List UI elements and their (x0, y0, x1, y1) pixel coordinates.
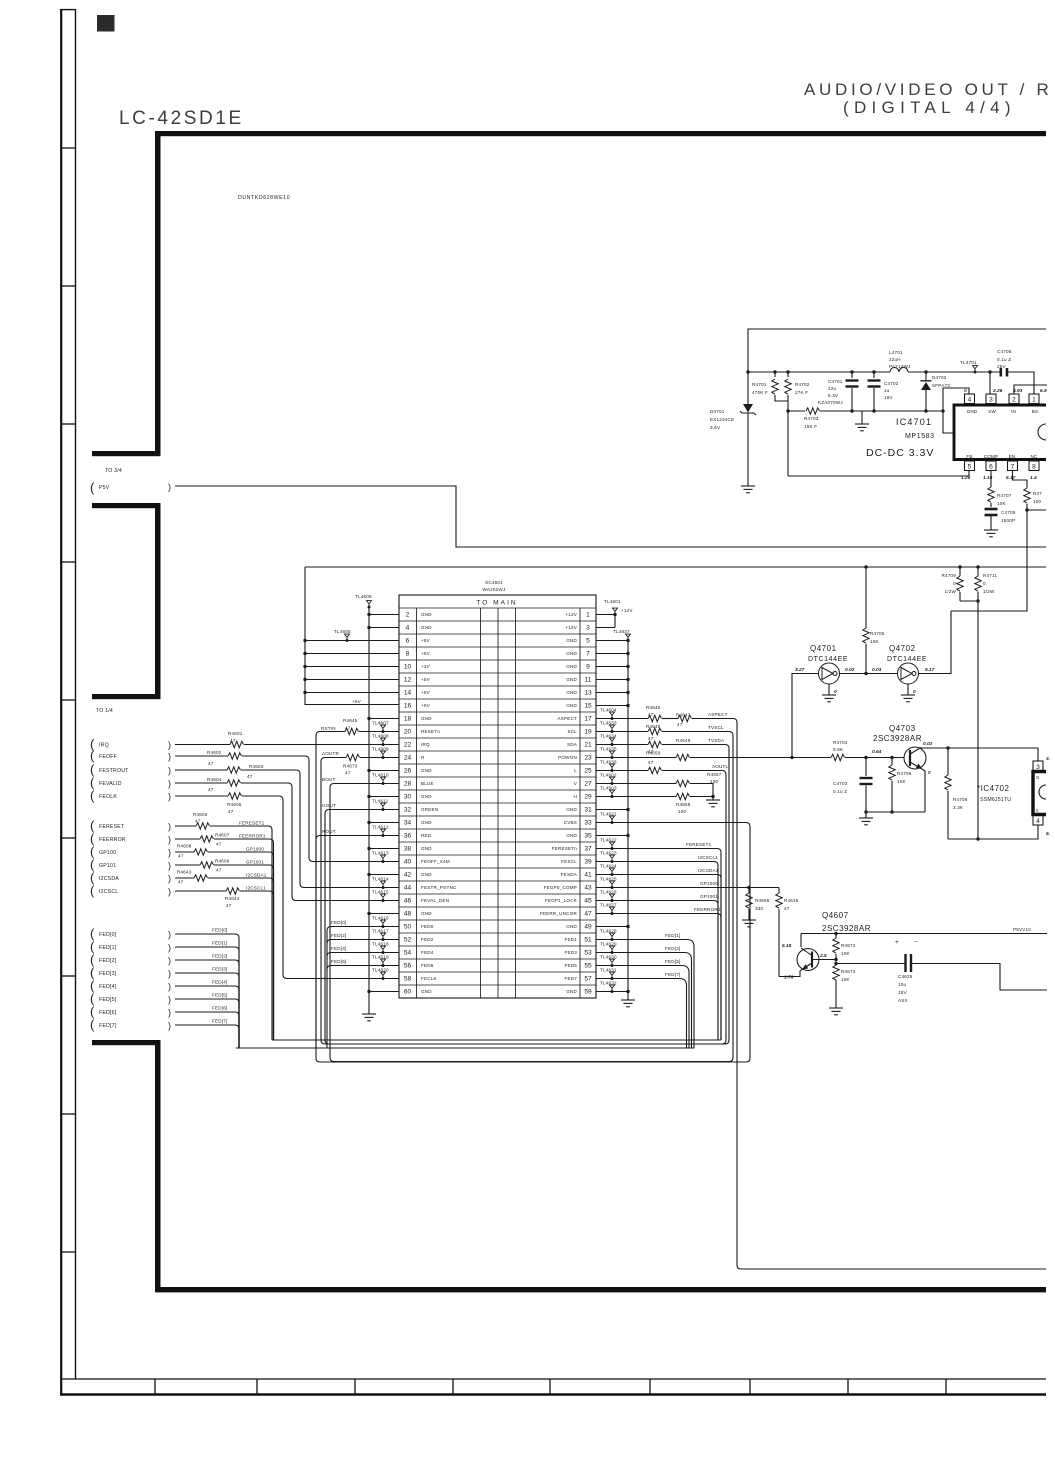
svg-text:1: 1 (586, 611, 590, 618)
wire +12V pins 1,3 (596, 615, 615, 628)
pin 3 SW (986, 394, 996, 404)
capacitor C4705 (990, 503, 992, 507)
wire IRQ to pin 22 (175, 744, 230, 746)
svg-text:R4643: R4643 (177, 870, 192, 875)
svg-text:9: 9 (586, 663, 590, 670)
svg-text:): ) (168, 995, 171, 1005)
wire I2CSCL net I2CSCL1 (175, 890, 226, 892)
test point TL4610 (381, 777, 386, 785)
svg-text:TL4602: TL4602 (600, 773, 617, 778)
svg-text:C4705: C4705 (1001, 510, 1016, 515)
svg-text:18: 18 (404, 715, 412, 722)
test point TL4631 (610, 972, 615, 980)
test point TL4627 (610, 907, 615, 915)
svg-text:R4607: R4607 (215, 833, 230, 838)
resistor R4673 (346, 754, 360, 760)
svg-text:I2CSDA1: I2CSDA1 (246, 873, 267, 878)
resistor R4648 (648, 728, 662, 734)
ground R4656 (742, 920, 756, 927)
svg-text:ASPECT: ASPECT (708, 712, 728, 717)
svg-text:FED1: FED1 (564, 937, 577, 942)
svg-text:23: 23 (584, 754, 592, 761)
svg-text:GND: GND (566, 690, 577, 695)
svg-text:7: 7 (586, 650, 590, 657)
resistor R4608 (194, 849, 208, 855)
svg-text:(: ( (90, 1017, 95, 1032)
svg-text:FED7: FED7 (564, 976, 577, 981)
svg-text:I2CSDA: I2CSDA (99, 876, 119, 882)
svg-text:1.4: 1.4 (1030, 475, 1037, 481)
svg-text:2SC3928AR: 2SC3928AR (822, 924, 871, 933)
resistor R4602 (228, 753, 242, 759)
svg-text:C4625: C4625 (898, 974, 913, 979)
left ruler ticks (60, 148, 76, 1252)
svg-text:R4647: R4647 (676, 713, 691, 718)
test point TL4628 (610, 933, 615, 941)
resistor R4647 (678, 715, 692, 721)
wire base Q4607 (812, 959, 836, 961)
svg-text:WA202WJ: WA202WJ (483, 587, 506, 592)
resistor R4616 (778, 888, 780, 894)
resistor R4645 (345, 728, 359, 734)
svg-text:IRQ: IRQ (99, 743, 109, 749)
svg-text:100: 100 (1033, 499, 1042, 504)
svg-text:): ) (168, 887, 171, 897)
wire GND pin 26 (369, 770, 399, 772)
test point TL4608 (381, 738, 386, 746)
svg-text:TVSDA: TVSDA (708, 738, 725, 743)
svg-text:R4645: R4645 (343, 718, 358, 723)
wire GND pin 30 (369, 796, 399, 798)
svg-text:R4605: R4605 (227, 802, 242, 807)
left ruler top cap (60, 9, 76, 11)
wire EN down to Q4702 (951, 510, 1027, 611)
svg-text:31: 31 (584, 806, 592, 813)
svg-text:43: 43 (584, 884, 592, 891)
test point TL4607 (381, 725, 386, 733)
svg-text:+5V: +5V (421, 690, 431, 695)
svg-text:SSM6J51TU: SSM6J51TU (980, 797, 1011, 803)
ground right bus (621, 1000, 635, 1007)
resistor R4704 (831, 754, 845, 760)
wire FB divider node down (787, 395, 789, 476)
wire ASPECT pin 17 off-page (596, 718, 648, 720)
svg-text:24: 24 (404, 754, 412, 761)
wire FEVALID to pin 46 (175, 782, 227, 784)
wire GND pin 11 (596, 679, 628, 681)
resistor R4646 (648, 715, 662, 721)
svg-text:R4606: R4606 (193, 812, 208, 817)
svg-text:GP100: GP100 (99, 850, 116, 856)
wire GP101 net GP1001 (175, 864, 200, 866)
wire +5V pin 6 (305, 640, 399, 642)
svg-text:59: 59 (584, 988, 592, 995)
wire GND pin 59 (596, 991, 628, 993)
svg-text:TL4626: TL4626 (600, 890, 617, 895)
svg-text:R4705: R4705 (870, 631, 885, 636)
bottom ruler ticks (155, 1379, 946, 1394)
svg-text:GND: GND (421, 716, 432, 721)
svg-text:POWON: POWON (558, 755, 577, 760)
svg-text:TL4628: TL4628 (600, 929, 617, 934)
svg-text:GND: GND (566, 651, 577, 656)
svg-text:8: 8 (1032, 464, 1036, 471)
svg-text:58: 58 (404, 975, 412, 982)
svg-text:47: 47 (648, 712, 654, 717)
svg-text:2.5: 2.5 (819, 953, 827, 959)
wire emitter return (866, 811, 925, 813)
svg-text:0.1u Z: 0.1u Z (833, 789, 847, 794)
svg-text:I2CSCL: I2CSCL (99, 889, 118, 895)
svg-text:38: 38 (404, 845, 412, 852)
border left upper segment (155, 131, 161, 456)
wire GND pin 7 (596, 653, 628, 655)
svg-text:17: 17 (584, 715, 592, 722)
svg-text:22: 22 (404, 741, 412, 748)
svg-text:10K: 10K (897, 779, 907, 784)
svg-text:): ) (168, 969, 171, 979)
svg-text:GND: GND (421, 846, 432, 851)
svg-text:FEERROR1: FEERROR1 (694, 907, 721, 912)
test point TL4615 (381, 894, 386, 902)
svg-text:TL4608: TL4608 (372, 734, 389, 739)
svg-text:FERESET1: FERESET1 (239, 821, 265, 826)
resistor R4656 (748, 888, 750, 894)
resistor R4603 (227, 767, 241, 773)
svg-text:470K F: 470K F (752, 390, 768, 395)
svg-text:RED: RED (421, 833, 432, 838)
resistor R4644 (226, 888, 240, 894)
ground Q4701 (828, 684, 830, 695)
svg-text:): ) (168, 930, 171, 940)
resistor R4643 (194, 875, 208, 881)
svg-text:I2CSCL1: I2CSCL1 (698, 855, 718, 860)
test point TL4609 (381, 751, 386, 759)
wire GND pin4 routing (943, 388, 969, 433)
svg-text:32: 32 (404, 806, 412, 813)
wire GND pin 48 (369, 913, 399, 915)
wire RSTIN pin 20 (359, 731, 399, 733)
svg-text:2.26: 2.26 (992, 388, 1003, 394)
wire GND pin 35 (596, 835, 628, 837)
svg-text:12: 12 (404, 676, 412, 683)
svg-text:FERESET: FERESET (99, 824, 125, 830)
border notch bar 2 (92, 503, 161, 508)
wire IC4702 source node (948, 825, 1038, 839)
svg-text:47: 47 (648, 760, 654, 765)
svg-text:TL4623: TL4623 (600, 851, 617, 856)
svg-text:TL4609: TL4609 (372, 747, 389, 752)
svg-text:GP1001: GP1001 (246, 860, 264, 865)
svg-text:20: 20 (404, 728, 412, 735)
svg-text:TL4605: TL4605 (334, 629, 351, 634)
ground left bus (362, 1014, 376, 1021)
svg-text:51: 51 (584, 936, 592, 943)
svg-text:FERESET1: FERESET1 (686, 842, 712, 847)
svg-text:47: 47 (178, 854, 184, 859)
svg-text:R4673: R4673 (343, 764, 358, 769)
svg-text:GND: GND (421, 820, 432, 825)
svg-text:GND: GND (421, 625, 432, 630)
resistor R4672 (835, 934, 837, 939)
svg-text:(DIGITAL 4/4): (DIGITAL 4/4) (843, 98, 1016, 117)
svg-text:0: 0 (953, 581, 956, 586)
border top edge (155, 131, 1046, 136)
svg-text:FEERR_UNCOR: FEERR_UNCOR (540, 911, 578, 916)
svg-text:GND: GND (421, 612, 432, 617)
svg-text:GND: GND (566, 664, 577, 669)
svg-text:R4704: R4704 (833, 740, 848, 745)
wire FEOFF to pin 40 (175, 755, 228, 757)
test point TL4623 (610, 855, 615, 863)
capacitor C4703 (865, 758, 867, 777)
svg-text:FESTR_PSYNC: FESTR_PSYNC (421, 885, 457, 890)
svg-text:PA214WJ: PA214WJ (889, 364, 910, 369)
svg-text:4: 4 (968, 397, 972, 404)
svg-text:SFPA73: SFPA73 (932, 383, 950, 388)
svg-text:10K: 10K (997, 501, 1007, 506)
test point TL4618 (381, 946, 386, 954)
svg-text:GP1000: GP1000 (700, 881, 718, 886)
svg-text:(: ( (90, 883, 95, 898)
svg-text:FED[3]: FED[3] (665, 946, 681, 951)
svg-text:2: 2 (406, 611, 410, 618)
svg-text:34: 34 (404, 819, 412, 826)
svg-text:FESDA: FESDA (561, 872, 578, 877)
svg-text:16V: 16V (884, 395, 894, 400)
svg-text:H: H (573, 794, 577, 799)
svg-text:FED[7]: FED[7] (665, 972, 681, 977)
svg-text:25V: 25V (997, 364, 1007, 369)
pin 4 GND (965, 394, 975, 404)
svg-text:GND: GND (566, 833, 577, 838)
svg-text:11: 11 (585, 676, 592, 683)
svg-text:TL4608: TL4608 (355, 594, 372, 599)
svg-text:TL4636: TL4636 (600, 760, 617, 765)
svg-text:TL4633: TL4633 (600, 721, 617, 726)
wire GND pin 60 (369, 991, 399, 993)
svg-text:Q4701: Q4701 (810, 644, 837, 653)
svg-text:29: 29 (584, 793, 592, 800)
resistor R4650 (676, 754, 690, 760)
svg-text:FED[4]: FED[4] (331, 946, 347, 951)
svg-text:47: 47 (216, 868, 222, 873)
border left lower segment (155, 1040, 161, 1292)
svg-text:35: 35 (584, 832, 592, 839)
svg-text:46: 46 (404, 897, 412, 904)
svg-text:FED[5]: FED[5] (212, 993, 228, 998)
wire +5V pin 8 (305, 653, 399, 655)
svg-text:GP1001: GP1001 (700, 894, 718, 899)
test point TL4622 (610, 842, 615, 850)
zener D4701 (747, 372, 749, 404)
wire P5VV10 rail (801, 933, 1047, 935)
svg-text:R4644: R4644 (225, 896, 240, 901)
svg-text:18K F: 18K F (804, 424, 817, 429)
test point TL4635 (610, 751, 615, 759)
svg-text:45: 45 (584, 897, 592, 904)
svg-text:54: 54 (404, 949, 412, 956)
svg-text:C4706: C4706 (997, 349, 1012, 354)
border notch bar 3 (92, 694, 161, 699)
svg-text:47: 47 (677, 722, 683, 727)
svg-text:FED[1]: FED[1] (665, 933, 681, 938)
svg-text:47: 47 (648, 736, 654, 741)
svg-text:BOUT: BOUT (322, 777, 336, 782)
svg-text:3: 3 (586, 624, 590, 631)
svg-text:FED[7]: FED[7] (212, 1019, 228, 1024)
svg-text:R4701: R4701 (752, 382, 767, 387)
svg-text:FEVAL_DEN: FEVAL_DEN (421, 898, 449, 903)
svg-text:): ) (168, 779, 171, 789)
svg-text:TL4614: TL4614 (372, 877, 389, 882)
svg-text:FED[6]: FED[6] (99, 1010, 117, 1016)
svg-text:C4702: C4702 (884, 381, 899, 386)
wire FED even bus riser (326, 931, 328, 1049)
svg-text:47: 47 (195, 819, 201, 824)
svg-text:48: 48 (404, 910, 412, 917)
svg-text:FEERROR1: FEERROR1 (239, 834, 266, 839)
capacitor C4625 (836, 963, 905, 965)
svg-text:R4609: R4609 (215, 859, 230, 864)
svg-text:47: 47 (345, 726, 351, 731)
svg-text:R4657: R4657 (707, 772, 722, 777)
test point TL4601 (613, 608, 618, 616)
test point TL4605 (345, 634, 350, 642)
resistor R4673 (834, 962, 837, 965)
wire GND pin 31 (596, 809, 628, 811)
IC4701 body (953, 404, 1047, 462)
svg-text:GP101: GP101 (99, 863, 116, 869)
svg-text:TL4615: TL4615 (372, 890, 389, 895)
svg-text:TVSCL: TVSCL (708, 725, 724, 730)
svg-text:2SC3928AR: 2SC3928AR (873, 734, 922, 743)
resistor R4658 (676, 793, 690, 799)
svg-text:1/2W: 1/2W (983, 589, 995, 594)
svg-text:Q4607: Q4607 (822, 911, 849, 920)
svg-text:0.64: 0.64 (872, 749, 882, 755)
svg-text:IRQ: IRQ (421, 742, 430, 747)
wire GND pin 13 (596, 692, 628, 694)
svg-text:0: 0 (928, 770, 931, 776)
svg-text:TL4616: TL4616 (372, 916, 389, 921)
wire jumper bottoms (960, 600, 978, 602)
svg-text:TL4630: TL4630 (600, 955, 617, 960)
wire C4706 to BS pin1 (1008, 372, 1034, 394)
wire FEOLK to pin 58 (175, 795, 228, 797)
svg-text:C4703: C4703 (833, 781, 848, 786)
svg-text:10u: 10u (898, 982, 907, 987)
resistor R4607 (200, 836, 214, 842)
svg-text:(: ( (90, 748, 95, 763)
svg-text:FERESETn: FERESETn (552, 846, 578, 851)
svg-text:R4672: R4672 (841, 943, 856, 948)
svg-text:+5V: +5V (421, 638, 431, 643)
svg-text:R4656: R4656 (755, 898, 770, 903)
svg-text:47: 47 (784, 906, 790, 911)
svg-text:): ) (168, 792, 171, 802)
svg-text:56: 56 (404, 962, 412, 969)
svg-text:44: 44 (404, 884, 412, 891)
svg-text:1500P: 1500P (1001, 518, 1015, 523)
svg-text:TO MAIN: TO MAIN (476, 600, 517, 607)
svg-text:0.1u Z: 0.1u Z (997, 357, 1011, 362)
test point TL4624 (610, 868, 615, 876)
svg-text:28: 28 (404, 780, 412, 787)
svg-text:42: 42 (404, 871, 412, 878)
wire GND pin 5 (596, 640, 628, 642)
svg-text:47: 47 (247, 774, 253, 779)
wire FESTROUT to pin 44 (175, 769, 227, 771)
test point TL4701 (973, 366, 978, 374)
svg-text:41: 41 (584, 871, 592, 878)
svg-text:FED[0]: FED[0] (212, 928, 228, 933)
svg-text:15: 15 (584, 702, 592, 709)
wire +5V pin 12 (305, 679, 399, 681)
svg-text:6: 6 (406, 637, 410, 644)
svg-text:22uH: 22uH (889, 357, 901, 362)
svg-text:C4701: C4701 (828, 379, 843, 384)
svg-text:R4616: R4616 (784, 898, 799, 903)
test point TL4626 (610, 894, 615, 902)
svg-text:R47: R47 (1033, 491, 1042, 496)
svg-text:330: 330 (755, 906, 764, 911)
svg-text:CVBS: CVBS (564, 820, 577, 825)
svg-text:GP1000: GP1000 (246, 847, 264, 852)
svg-text:3: 3 (989, 397, 993, 404)
svg-text:FED[1]: FED[1] (99, 945, 117, 951)
svg-text:KZA070WJ: KZA070WJ (818, 400, 843, 405)
svg-text:10: 10 (404, 663, 412, 670)
GND bus right (627, 641, 629, 1001)
wire GP100 net GP1000 (175, 851, 194, 853)
svg-text:COMP: COMP (984, 454, 999, 459)
svg-text:ROUT: ROUT (322, 829, 336, 834)
svg-text:GOUT: GOUT (322, 803, 336, 808)
border notch bar 4 (92, 1040, 161, 1045)
svg-text:47: 47 (178, 880, 184, 885)
test point TL4634 (610, 738, 615, 746)
svg-text:FED[4]: FED[4] (99, 984, 117, 990)
svg-text:): ) (168, 752, 171, 762)
svg-text:FED[2]: FED[2] (331, 933, 347, 938)
ground Q4702 (907, 684, 909, 695)
wire GND pin 38 (369, 848, 399, 850)
wire +5V pin 10 (305, 666, 399, 668)
svg-text:EN: EN (1009, 454, 1016, 459)
svg-text:13: 13 (584, 689, 592, 696)
svg-text:1.78: 1.78 (784, 975, 794, 981)
svg-text:MP1583: MP1583 (905, 433, 935, 440)
test point TL4611 (381, 803, 386, 811)
svg-text:AUDIO/VIDEO OUT / R: AUDIO/VIDEO OUT / R (804, 80, 1053, 99)
svg-text:R4649: R4649 (676, 738, 691, 743)
wire to IC4702 source (977, 601, 979, 839)
wire CVBS pin 33 to ROUT pin 36 (316, 823, 750, 1063)
svg-text:33: 33 (584, 819, 592, 826)
svg-text:GND: GND (566, 924, 577, 929)
svg-text:TL4701: TL4701 (960, 360, 977, 365)
svg-text:47: 47 (584, 910, 592, 917)
test point TL4633 (610, 725, 615, 733)
svg-text:10K: 10K (870, 639, 880, 644)
svg-text:FEGP1_LOCK: FEGP1_LOCK (545, 898, 578, 903)
test point TL4613 (381, 855, 386, 863)
svg-text:SCL: SCL (567, 729, 577, 734)
resistor R4707 (990, 471, 992, 488)
svg-text:GREEN: GREEN (421, 807, 438, 812)
svg-text:GND: GND (566, 638, 577, 643)
